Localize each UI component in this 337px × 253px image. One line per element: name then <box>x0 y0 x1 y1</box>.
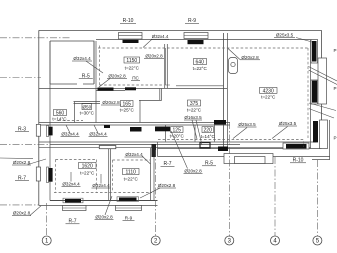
window bottom1 mid <box>63 207 87 209</box>
window left1 <box>36 124 40 136</box>
leader o25 top <box>296 38 312 43</box>
svg-text:Ø32x4.4: Ø32x4.4 <box>125 152 143 157</box>
grid line row D <box>0 204 39 206</box>
svg-text:ПС: ПС <box>132 76 139 81</box>
svg-text:Р: Р <box>333 136 336 141</box>
room R5 inner outline <box>50 41 94 84</box>
wall band y84 <box>50 83 94 85</box>
leader o32 top <box>143 39 152 47</box>
svg-text:Ø50: Ø50 <box>82 104 91 109</box>
svg-text:165: 165 <box>123 101 132 107</box>
svg-text:1150: 1150 <box>126 58 137 64</box>
leader right edge b <box>309 103 336 111</box>
leader o32 row2 a <box>70 172 72 182</box>
svg-text:4230: 4230 <box>263 88 274 94</box>
wall between 1620 1110 right <box>109 149 111 201</box>
window top1 mid <box>119 35 143 37</box>
wall 220 right <box>214 125 216 142</box>
window top1 <box>119 33 143 40</box>
svg-text:Р: Р <box>333 48 336 53</box>
boiler symbol <box>229 58 238 74</box>
grid line col 5 <box>316 160 318 236</box>
wall top inner <box>96 39 311 41</box>
svg-text:1110: 1110 <box>126 169 137 175</box>
vent block <box>99 146 116 149</box>
wall bottomright bottom <box>158 156 331 158</box>
radiator bottomright horizontal outline <box>283 143 309 149</box>
room O50 <box>82 104 92 110</box>
leader line left y158 <box>0 157 33 160</box>
svg-text:375: 375 <box>190 101 199 107</box>
leader right edge b2 <box>309 109 334 118</box>
svg-text:t=22°C: t=22°C <box>80 170 95 175</box>
grid circle 4 <box>271 236 280 245</box>
bottom right outer line <box>312 159 330 161</box>
pipe dashed 1620 right <box>96 160 98 193</box>
leader o32 left <box>86 61 103 73</box>
wall 125 left <box>165 125 167 142</box>
bay right side <box>329 120 331 160</box>
wall between 1620 1110 left <box>108 149 110 201</box>
wall 640 right inner <box>227 33 229 149</box>
svg-text:Ø20x2.8: Ø20x2.8 <box>184 169 202 174</box>
svg-text:Ø20x2.8: Ø20x2.8 <box>241 55 259 60</box>
wall 165 right x161 a <box>159 89 161 101</box>
svg-text:Ø25x3.5: Ø25x3.5 <box>238 122 256 127</box>
window bottom2 <box>116 206 142 211</box>
room 560 <box>54 110 67 116</box>
svg-text:Ø25x3.5: Ø25x3.5 <box>279 121 297 126</box>
svg-text:1620: 1620 <box>82 163 93 169</box>
room 125 <box>171 127 184 133</box>
leader o32 row1 a <box>66 125 70 133</box>
room 1150 <box>124 57 140 63</box>
svg-text:Ø20x2.8: Ø20x2.8 <box>102 100 120 105</box>
room 1620 <box>79 163 97 169</box>
radiator small x104 black <box>104 125 110 128</box>
wall pier x150 <box>152 144 157 157</box>
leader o20 corner <box>30 206 41 216</box>
room 375 <box>188 100 201 106</box>
wall o50 top a <box>74 101 101 103</box>
radiator 220 black <box>214 120 226 125</box>
leader o32 row2 b <box>100 174 102 184</box>
pipe dashed 560 <box>58 120 83 122</box>
room 1110 <box>123 169 140 175</box>
wall 1150 right a <box>164 44 166 88</box>
svg-text:R-9: R-9 <box>125 216 133 221</box>
grid circle 1 <box>42 236 51 245</box>
radiator PS black <box>98 88 114 91</box>
room 640 <box>194 59 207 65</box>
pipe dashed main top <box>98 47 308 49</box>
wall room1150 left <box>95 41 97 123</box>
svg-text:Ø20x2.8: Ø20x2.8 <box>13 211 31 216</box>
wall y142 long <box>39 141 316 143</box>
radiator left R7 niche <box>47 167 49 183</box>
svg-text:125: 125 <box>173 127 182 133</box>
grid line col 3 <box>228 122 230 237</box>
radiator niche right top <box>311 40 318 64</box>
pipe dashed 1150 left <box>99 46 101 86</box>
leader o20 bottom <box>140 188 160 198</box>
radiator niche right mid <box>311 80 318 104</box>
svg-text:t=22°C: t=22°C <box>187 108 202 113</box>
grid line col 1 <box>46 203 48 236</box>
svg-text:t=22°C: t=22°C <box>261 95 276 100</box>
wall x140 <box>139 100 141 122</box>
svg-text:640: 640 <box>196 59 205 65</box>
wall 1110 right a <box>150 148 152 201</box>
leader o32 mid <box>142 156 151 164</box>
leader o20 right <box>228 49 240 60</box>
wall bottomright top <box>158 148 322 150</box>
pipe dashed 1150 bottom <box>100 84 165 86</box>
svg-text:Ø20x2.8: Ø20x2.8 <box>158 183 176 188</box>
radiator right bottom vertical black <box>313 121 318 142</box>
wall 1150 right b <box>166 44 168 88</box>
window left2 <box>36 167 40 181</box>
svg-text:t=22°C: t=22°C <box>125 65 140 70</box>
wall left outer <box>38 30 40 205</box>
radiator left R3 black <box>49 127 53 136</box>
svg-text:220: 220 <box>204 127 213 133</box>
leader right edge a2 <box>309 70 337 85</box>
radiator R10 top black <box>123 40 139 43</box>
wall 1110 right b <box>153 148 155 201</box>
svg-text:t=20°C: t=20°C <box>170 134 185 139</box>
door notch band <box>77 83 83 89</box>
leader o20 1150 <box>99 79 110 88</box>
pipe dashed y139 <box>158 140 304 147</box>
wall 640 bottom upper <box>176 85 224 87</box>
wall right inner <box>310 40 312 149</box>
wall right outer <box>321 30 323 148</box>
radiator left R7 black <box>49 168 53 182</box>
porch window <box>235 157 266 164</box>
pipe drop 1150 <box>166 48 171 85</box>
wall 165 right x161 b <box>161 89 163 101</box>
wall bottom inner <box>50 200 158 202</box>
grid line row B <box>0 77 41 79</box>
pipe dashed 1620 top <box>56 159 97 161</box>
leader right edge a <box>309 67 337 82</box>
leader o32 row1 b <box>94 125 98 133</box>
radiator bottomleft1 black <box>65 199 81 202</box>
window top2 mid <box>184 35 208 37</box>
room 220 <box>202 127 214 133</box>
radiator mid1 black <box>130 127 142 132</box>
grid circle 3 <box>225 236 234 245</box>
grid line row C <box>0 143 50 145</box>
grid circle 2 <box>151 236 160 245</box>
radiator PS2 black <box>125 87 136 90</box>
svg-text:Ø20x2.8: Ø20x2.8 <box>108 74 126 79</box>
svg-text:Ø25x3.5: Ø25x3.5 <box>276 33 294 38</box>
svg-text:Ø32x4.4: Ø32x4.4 <box>61 132 79 137</box>
svg-text:Ø32x4.4: Ø32x4.4 <box>152 34 169 39</box>
svg-text:t=22°C: t=22°C <box>193 66 208 71</box>
leader o16 b <box>196 120 202 145</box>
svg-text:t=30°C: t=30°C <box>80 111 95 116</box>
room 165 <box>121 101 134 107</box>
radiator left R3 niche <box>47 126 49 137</box>
wall 560 right <box>74 102 76 123</box>
pipe dashed bottom long <box>54 192 152 194</box>
svg-text:Ø20x2.8: Ø20x2.8 <box>145 54 163 59</box>
wall band y88.5 <box>39 88 227 90</box>
svg-text:Ø32x4.4: Ø32x4.4 <box>89 132 107 137</box>
radiator right mid vertical black <box>312 81 317 103</box>
wall y144.5 long <box>50 144 240 146</box>
leader o20 bottomleft mid <box>105 196 112 215</box>
pipe dashed right vertical <box>307 48 309 139</box>
wall y147.5 right <box>39 146 311 148</box>
pipe dashed 1620 left <box>55 160 57 193</box>
grid line col 2 <box>155 150 157 236</box>
svg-text:t=14°C: t=14°C <box>201 134 216 139</box>
svg-text:560: 560 <box>56 110 65 116</box>
radiator mid2 black <box>155 127 170 132</box>
svg-text:Ø16x3.5: Ø16x3.5 <box>184 115 202 120</box>
radiator bottomleft2 outline <box>117 197 139 202</box>
wall 1150 bottom second <box>96 90 125 92</box>
wall y125 <box>39 124 230 126</box>
svg-text:t=14°C: t=14°C <box>52 116 67 121</box>
window top2 <box>184 33 208 39</box>
radiator bottomleft2 black <box>119 198 137 201</box>
porch rect <box>224 154 273 164</box>
svg-text:Ø20x2.8: Ø20x2.8 <box>13 160 31 165</box>
radiator right top vertical black <box>312 41 317 62</box>
wall pier chunk <box>218 147 228 152</box>
svg-text:Ø32x4.4: Ø32x4.4 <box>92 183 110 188</box>
bay right rect <box>320 120 328 149</box>
wall bottom outer <box>39 205 158 207</box>
svg-text:Р: Р <box>333 86 336 91</box>
pipe dashed 1110 top <box>113 159 151 161</box>
wall y100.4 <box>139 99 162 101</box>
wall o50 top b <box>74 103 101 105</box>
step threshold <box>200 143 210 149</box>
wall 640 right double <box>223 33 225 149</box>
window bottom1 <box>63 206 87 211</box>
svg-text:t=22°C: t=22°C <box>124 176 139 181</box>
right terrace rect <box>318 58 327 104</box>
leader o20 left <box>28 159 47 165</box>
room 4230 <box>260 88 278 94</box>
radiator bottomleft1 outline <box>63 198 83 203</box>
window bottom2 mid <box>116 207 142 209</box>
grid line row A <box>0 37 71 39</box>
leader o25 bottom b <box>272 127 288 139</box>
svg-text:t=25°C: t=25°C <box>120 108 135 113</box>
radiator bottomright horizontal black <box>286 144 307 149</box>
wall step x157 <box>157 142 159 157</box>
leader o16 a <box>192 120 197 139</box>
wall y122.5 <box>39 122 230 124</box>
leader o20 mid diag <box>171 131 188 169</box>
grid line col 4 <box>274 157 276 236</box>
radiator R9 top black <box>188 40 204 44</box>
wall left inner <box>49 41 51 201</box>
wall R5 right <box>93 41 95 84</box>
wall top outer <box>39 29 322 31</box>
svg-text:Ø32x4.4: Ø32x4.4 <box>73 56 91 61</box>
svg-text:Ø20x2.8: Ø20x2.8 <box>95 215 113 220</box>
wall 125-220 divider <box>194 125 196 142</box>
leader o25 bottom a <box>233 128 247 139</box>
pipe dashed 1110 left <box>112 160 114 193</box>
svg-text:Ø32x4.4: Ø32x4.4 <box>62 182 80 187</box>
grid circle 5 <box>313 236 322 245</box>
